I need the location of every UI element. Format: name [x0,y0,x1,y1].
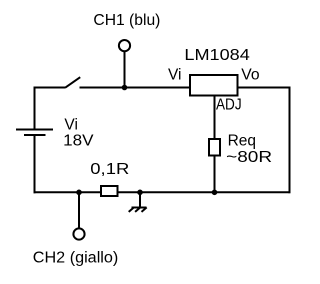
svg-text:ADJ: ADJ [216,97,242,114]
junction: CH1 tap on top wire [122,85,128,91]
wire: battery negative lead down to bottom rail [34,135,36,193]
ground hatch 1 [129,207,134,212]
regulator U1 LM1084 body [190,75,238,96]
CH1 probe terminal circle [119,40,130,51]
svg-text:Vi: Vi [168,66,182,83]
resistor Req body [209,139,220,156]
wire: left rail top (battery positive lead) [34,87,36,130]
svg-text:CH2 (giallo): CH2 (giallo) [33,250,119,267]
ground bar [132,207,147,209]
svg-text:CH1 (blu): CH1 (blu) [93,12,160,29]
svg-text:Req: Req [228,133,256,150]
CH2 probe stub wire [78,192,80,228]
bottom rail wire [34,191,290,193]
switch S1 blade (open) [65,77,80,88]
junction: ground tap on bottom rail [137,190,143,196]
wire: right rail vertical [289,87,291,194]
ground hatch 3 [142,207,147,212]
svg-text:0,1R: 0,1R [90,161,129,178]
svg-text:18V: 18V [63,132,94,149]
junction: CH2 tap on bottom rail [76,190,82,196]
ground hatch 2 [135,207,140,212]
svg-text:~80R: ~80R [226,149,272,166]
svg-text:LM1084: LM1084 [184,47,250,64]
svg-text:Vo: Vo [241,66,259,83]
battery BT1 positive plate (long) [16,129,53,131]
resistor R1 0,1R body [101,186,118,196]
junction: Req/ADJ node on bottom rail [212,190,218,196]
svg-text:Vi: Vi [64,117,78,134]
wire: ADJ pin down to Req [214,96,216,140]
wire: switch right contact to regulator Vi pin [80,87,191,89]
wire: top-left horizontal from battery corner to switch [34,87,66,89]
battery BT1 negative plate (short) [24,134,46,136]
wire: Req to bottom rail [214,157,216,193]
CH2 probe terminal circle [73,228,84,239]
ground stub wire [139,192,141,207]
CH1 probe stub wire [124,51,126,88]
wire: Vo pin to right rail [238,87,290,89]
